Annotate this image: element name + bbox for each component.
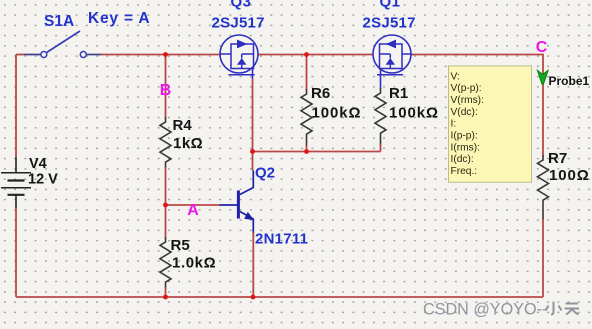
- wire left vertical battery top: [15, 55, 17, 158]
- svg-text:I(p-p):: I(p-p):: [451, 131, 478, 142]
- svg-text:C: C: [536, 39, 548, 56]
- wire node B branch down to R4: [165, 55, 167, 118]
- svg-text:S1A: S1A: [44, 13, 74, 30]
- mosfet Q3 2SJ517: [220, 35, 258, 79]
- svg-text:CSDN @YOYO--: CSDN @YOYO--: [423, 300, 547, 318]
- wire node A to Q2 base: [166, 204, 220, 206]
- svg-text:V:: V:: [451, 71, 460, 82]
- svg-text:12 V: 12 V: [28, 172, 58, 188]
- mosfet Q1 2SJ517: [373, 35, 411, 89]
- svg-text:100kΩ: 100kΩ: [312, 105, 362, 122]
- wire R6 top from source rail: [306, 55, 308, 90]
- svg-text:Probe1: Probe1: [549, 74, 590, 88]
- switch S1A: [24, 31, 101, 58]
- svg-text:2N1711: 2N1711: [255, 231, 308, 248]
- battery V4: [1, 158, 31, 209]
- svg-text:V4: V4: [29, 156, 47, 172]
- junction Q2 emitter bottom rail: [251, 295, 256, 300]
- resistor R6: [301, 89, 312, 145]
- svg-text:I:: I:: [451, 119, 457, 130]
- svg-text:B: B: [160, 82, 172, 99]
- svg-text:V(rms):: V(rms):: [451, 95, 484, 106]
- wire R5 bottom to bottom rail: [165, 287, 167, 297]
- junction R6 top: [304, 52, 309, 57]
- wire left vertical battery bottom: [15, 208, 17, 297]
- wire Q3 drain down to mid rail: [252, 79, 254, 152]
- svg-text:R5: R5: [171, 237, 190, 254]
- svg-text:2SJ517: 2SJ517: [212, 15, 265, 32]
- junction R6 bottom mid rail: [304, 149, 309, 154]
- svg-text:Q1: Q1: [380, 0, 401, 11]
- wire bottom rail: [16, 296, 543, 298]
- measurement box: [449, 66, 532, 182]
- svg-text:Key = A: Key = A: [88, 10, 150, 27]
- junction node A: [163, 203, 168, 208]
- resistor R5: [160, 237, 171, 287]
- wire R7 bottom to bottom rail: [542, 219, 544, 297]
- svg-text:A: A: [187, 202, 199, 219]
- svg-text:2SJ517: 2SJ517: [363, 15, 416, 32]
- wire node A to R5: [165, 205, 167, 238]
- svg-text:100kΩ: 100kΩ: [389, 105, 439, 122]
- wire R1 bottom to mid rail corner: [380, 144, 382, 152]
- svg-text:100Ω: 100Ω: [549, 167, 590, 184]
- resistor R7: [538, 155, 549, 219]
- junction Q3 drain mid rail: [250, 149, 255, 154]
- junction R5 bottom rail: [163, 295, 168, 300]
- probe Probe1 (green arrow): [537, 70, 548, 84]
- svg-text:V(p-p):: V(p-p):: [451, 83, 482, 94]
- svg-text:V(dc):: V(dc):: [451, 107, 478, 118]
- watermark CSDN @YOYO--xiaotian: [423, 300, 579, 318]
- resistor R4: [160, 117, 171, 167]
- svg-text:R1: R1: [389, 85, 408, 102]
- svg-text:R7: R7: [548, 150, 567, 167]
- wire R6 bottom to mid rail: [306, 145, 308, 152]
- wire Q2 emitter to bottom rail: [252, 232, 254, 297]
- wire top-left from V4 branch to switch: [16, 54, 24, 56]
- wire Q2 collector to mid rail: [252, 152, 254, 171]
- transistor Q2 2N1711: [220, 171, 255, 233]
- wire mid rail Q3 drain to R1 bottom: [253, 151, 381, 153]
- svg-text:R6: R6: [311, 85, 330, 102]
- junction node B top: [163, 52, 168, 57]
- resistor R1: [375, 88, 386, 144]
- wire switch to Q3 gate: [101, 54, 220, 56]
- wire Q3 source to Q1 source: [258, 54, 374, 56]
- wire R4 to node A: [165, 167, 167, 205]
- svg-text:I(rms):: I(rms):: [451, 142, 480, 153]
- svg-text:1kΩ: 1kΩ: [173, 135, 203, 152]
- svg-text:Freq.:: Freq.:: [451, 166, 478, 177]
- svg-text:Q3: Q3: [231, 0, 252, 11]
- svg-text:Q2: Q2: [255, 165, 275, 182]
- svg-text:I(dc):: I(dc):: [451, 154, 474, 165]
- svg-text:1.0kΩ: 1.0kΩ: [172, 255, 216, 272]
- wire Q1 gate to node C corner and down to R7: [411, 55, 543, 156]
- svg-text:R4: R4: [173, 117, 193, 134]
